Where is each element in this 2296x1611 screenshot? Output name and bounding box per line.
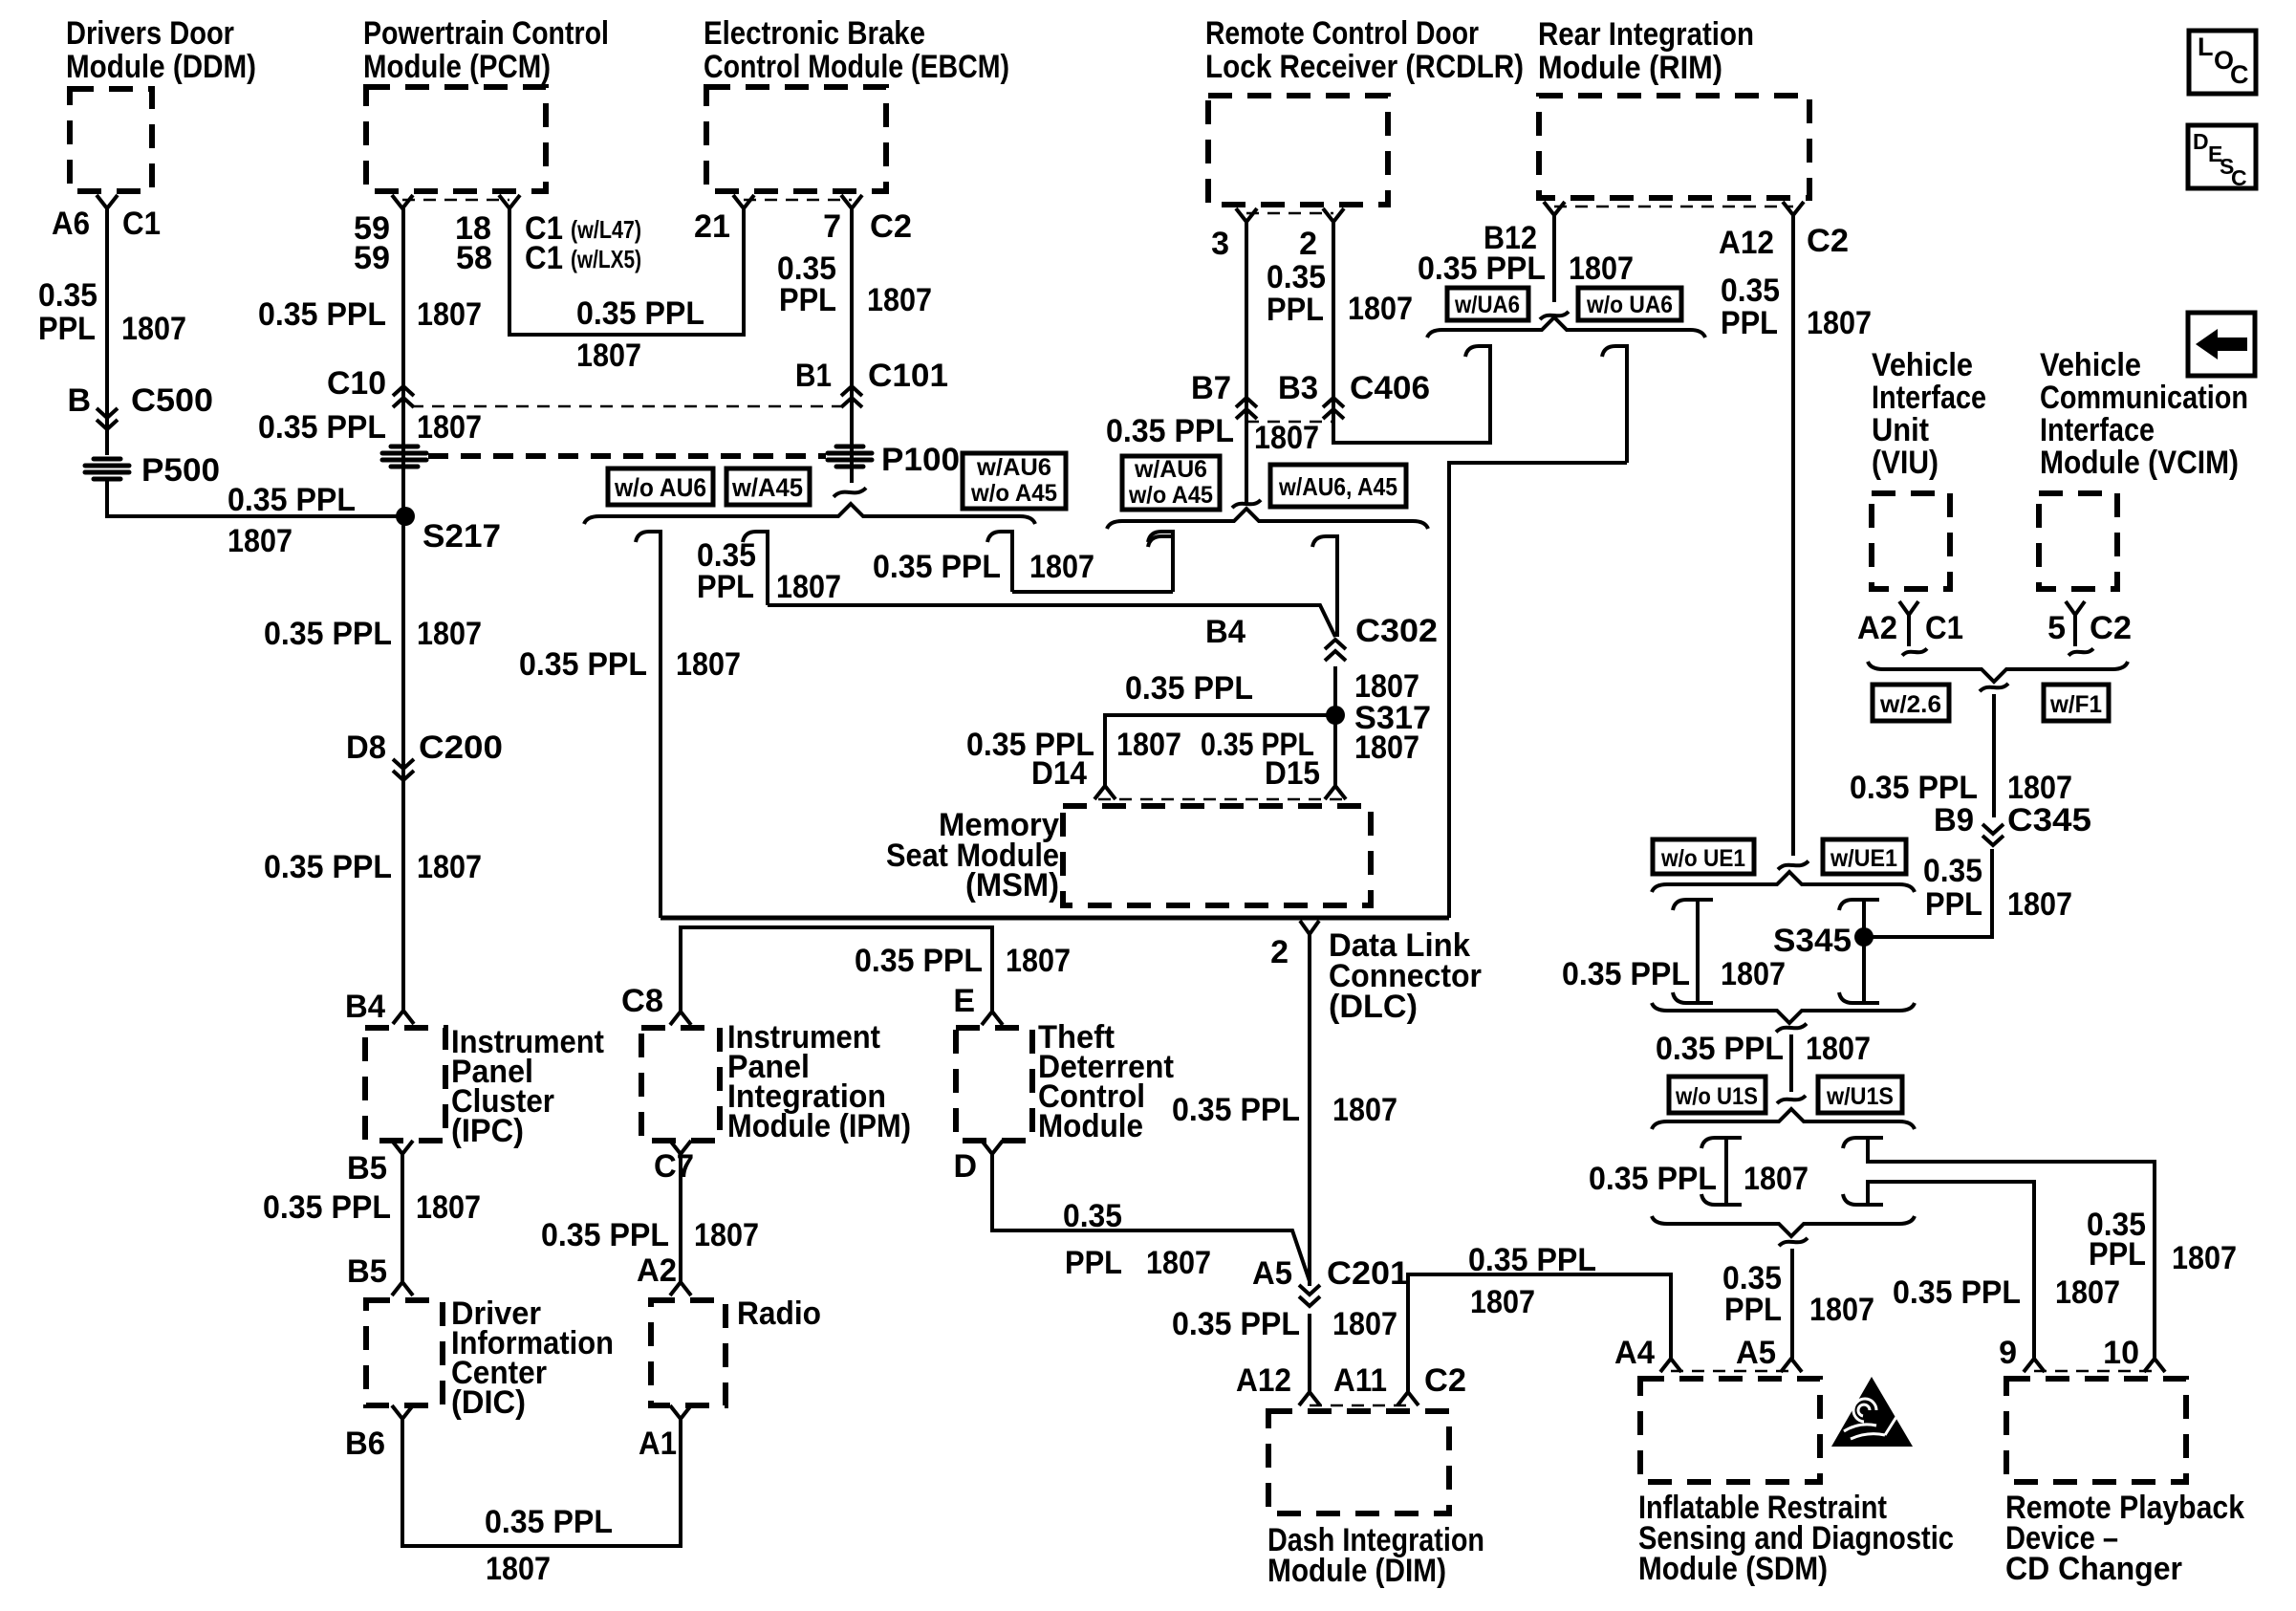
svg-text:w/U1S: w/U1S <box>1826 1083 1894 1110</box>
svg-text:A11: A11 <box>1333 1362 1387 1399</box>
option box w/2.6 <box>1873 685 1949 721</box>
svg-text:A5: A5 <box>1252 1255 1292 1292</box>
pin A11 fork at DIM <box>1397 1392 1419 1405</box>
svg-text:0.35 PPL: 0.35 PPL <box>1656 1031 1784 1067</box>
svg-text:Drivers Door: Drivers Door <box>66 15 234 52</box>
svg-text:0.35: 0.35 <box>1721 272 1780 309</box>
svg-text:B4: B4 <box>345 989 385 1025</box>
svg-text:B4: B4 <box>1205 614 1245 650</box>
option box w/A45 <box>726 468 810 505</box>
connector C406 chevrons B7 <box>1236 398 1257 419</box>
svg-text:A12: A12 <box>1719 225 1774 261</box>
brace for AU6/A45 options (RCDLR side) <box>1107 509 1428 529</box>
svg-text:w/AU6: w/AU6 <box>1134 456 1207 483</box>
svg-text:C345: C345 <box>2007 802 2091 838</box>
pin 3 fork at RCDLR <box>1236 208 1257 222</box>
svg-text:A4: A4 <box>1614 1335 1655 1371</box>
option box w/UE1 <box>1823 839 1906 874</box>
wire break tilde below P100 <box>834 488 866 496</box>
pin B12 fork at RIM <box>1544 202 1565 215</box>
connector C302 chevrons <box>1325 640 1346 661</box>
svg-text:L: L <box>2198 33 2214 61</box>
branch hook w/UA6 <box>1465 346 1490 443</box>
svg-text:B5: B5 <box>347 1150 387 1186</box>
svg-text:w/F1: w/F1 <box>2049 691 2102 718</box>
pin B4 fork at IPC <box>393 1011 414 1024</box>
pin E fork at Theft module <box>982 1012 1003 1025</box>
pin 2 fork at RCDLR <box>1323 208 1344 222</box>
wire C8-E link <box>681 927 992 1012</box>
svg-text:Communication: Communication <box>2040 380 2248 416</box>
svg-text:Remote Control Door: Remote Control Door <box>1205 15 1479 52</box>
svg-text:2: 2 <box>1270 934 1289 970</box>
brace for AU6/A45 options (EBCM side) <box>584 504 1035 524</box>
svg-text:1807: 1807 <box>1348 291 1413 327</box>
option box w/o U1S <box>1669 1077 1765 1113</box>
VIU pin foot <box>1902 648 1927 655</box>
connector C10 chevrons <box>393 386 414 407</box>
connector C200 chevrons <box>393 759 414 780</box>
module DIC box <box>366 1300 443 1405</box>
rail w/UE1 top bar <box>1839 900 1879 910</box>
svg-text:E: E <box>953 983 975 1019</box>
wire Theft D to C201 <box>992 1154 1310 1281</box>
wire break tilde below VIU/VCIM brace <box>1980 684 2008 691</box>
pin A6/C1 fork at DDM <box>97 195 118 208</box>
branch w/o U1S top bar <box>1701 1138 1742 1148</box>
wire RCDLR pin3 down (B7) <box>1245 222 1248 504</box>
bus wire w/o AU6 branch to DLC area <box>661 916 1449 921</box>
connector C201 chevrons <box>1299 1285 1320 1306</box>
option box w/F1 <box>2044 685 2109 721</box>
svg-text:1807: 1807 <box>2172 1240 2237 1276</box>
option box w/AU6, A45 <box>1270 465 1406 507</box>
RCDLR connector dashed edge <box>1246 212 1333 215</box>
wire w/o UA6 branch to bus <box>1449 463 1627 918</box>
option box w/o UA6 <box>1578 288 1681 320</box>
wire S345 to C345 wire <box>1864 849 1992 937</box>
branch w/o U1S wire <box>1724 1138 1728 1205</box>
svg-text:w/o AU6: w/o AU6 <box>614 473 706 502</box>
svg-text:59: 59 <box>354 240 390 276</box>
wire DIC B6 to Radio A1 <box>402 1419 681 1546</box>
wire RIM B12 down <box>1552 215 1556 302</box>
svg-text:Module (IPM): Module (IPM) <box>727 1108 911 1144</box>
svg-text:1807: 1807 <box>1354 729 1419 766</box>
module RCDLR box <box>1208 96 1388 205</box>
module RIM box <box>1539 96 1809 198</box>
svg-text:(DLC): (DLC) <box>1329 989 1418 1025</box>
wire S317 to D15 <box>1333 715 1337 786</box>
branch hook w/o UA6 <box>1602 346 1627 463</box>
branch hook w/AU6 w/o A45 (left) <box>987 532 1012 592</box>
wire break tilde below A5 brace <box>1779 1238 1808 1246</box>
svg-text:10: 10 <box>2103 1335 2139 1371</box>
svg-text:(VIU): (VIU) <box>1872 445 1939 481</box>
module PCM box <box>366 87 546 191</box>
svg-text:P500: P500 <box>141 452 220 489</box>
svg-text:1807: 1807 <box>776 569 841 605</box>
wire S217 to IPC B4 <box>401 516 405 1011</box>
VCIM pin foot <box>2069 648 2093 655</box>
pin B5 fork at IPC bottom <box>392 1141 413 1154</box>
option box w/o UE1 <box>1653 839 1754 874</box>
svg-text:PPL: PPL <box>1721 305 1778 341</box>
svg-text:Interface: Interface <box>2040 412 2155 448</box>
wire DDM A6 to P500 <box>105 208 109 455</box>
svg-text:w/A45: w/A45 <box>731 473 803 502</box>
svg-text:(w/LX5): (w/LX5) <box>571 245 641 273</box>
svg-text:PPL: PPL <box>1724 1292 1782 1328</box>
branch hook w/o AU6 <box>636 532 661 918</box>
svg-text:Rear Integration: Rear Integration <box>1538 16 1754 53</box>
pin 5/C2 fork at VCIM <box>2066 601 2085 615</box>
svg-text:PPL: PPL <box>38 311 96 347</box>
svg-text:1807: 1807 <box>227 523 292 559</box>
svg-text:1807: 1807 <box>1332 1306 1397 1342</box>
svg-text:B3: B3 <box>1278 370 1318 406</box>
svg-text:Module (RIM): Module (RIM) <box>1538 50 1722 86</box>
svg-text:Vehicle: Vehicle <box>1872 347 1973 383</box>
svg-text:C1: C1 <box>122 206 161 242</box>
option box w/AU6 w/o A45 (right) <box>1122 456 1220 510</box>
svg-text:C2: C2 <box>2090 610 2132 646</box>
svg-text:1807: 1807 <box>1569 250 1634 287</box>
svg-text:1807: 1807 <box>576 337 641 374</box>
svg-text:1807: 1807 <box>1806 1031 1871 1067</box>
svg-text:C1: C1 <box>1925 610 1963 646</box>
module Radio box <box>651 1300 726 1405</box>
pin 7 fork at EBCM <box>841 195 862 208</box>
svg-text:w/2.6: w/2.6 <box>1879 691 1941 718</box>
svg-text:0.35 PPL: 0.35 PPL <box>519 646 647 683</box>
C406 dashed line <box>1246 421 1333 424</box>
brace gathering VIU/VCIM <box>1868 662 2128 682</box>
svg-text:1807: 1807 <box>2055 1274 2120 1311</box>
svg-text:PPL: PPL <box>697 569 754 605</box>
svg-text:PPL: PPL <box>1065 1245 1122 1281</box>
svg-text:58: 58 <box>456 240 492 276</box>
svg-text:0.35 PPL: 0.35 PPL <box>873 549 1001 585</box>
svg-text:Module (VCIM): Module (VCIM) <box>2040 445 2239 481</box>
branch w/U1S top bar <box>1843 1138 1883 1148</box>
svg-text:1807: 1807 <box>867 282 932 318</box>
svg-text:1807: 1807 <box>1116 727 1181 763</box>
SDM connector dashed edge <box>1671 1370 1791 1373</box>
svg-text:1807: 1807 <box>2007 770 2072 806</box>
svg-text:B6: B6 <box>345 1426 385 1462</box>
svg-text:1807: 1807 <box>417 849 482 885</box>
svg-text:Electronic Brake: Electronic Brake <box>704 15 925 52</box>
svg-text:Lock Receiver (RCDLR): Lock Receiver (RCDLR) <box>1205 49 1524 85</box>
PCM connector dashed edge <box>402 199 509 202</box>
svg-text:C200: C200 <box>419 729 503 766</box>
svg-text:C10: C10 <box>327 365 386 402</box>
svg-text:0.35 PPL: 0.35 PPL <box>258 409 386 446</box>
svg-text:D15: D15 <box>1265 755 1320 792</box>
svg-text:Module (PCM): Module (PCM) <box>363 49 551 85</box>
svg-text:0.35 PPL: 0.35 PPL <box>1418 250 1546 287</box>
EBCM connector dashed edge <box>744 199 852 202</box>
pin A12 fork at RIM <box>1783 202 1804 215</box>
module EBCM box <box>706 87 886 191</box>
svg-text:0.35 PPL: 0.35 PPL <box>576 295 704 332</box>
wire brace B right branch merge <box>1335 592 1339 637</box>
branch pin9 bottom bar <box>1843 1194 1883 1205</box>
rail w/o UE1 wire <box>1696 900 1700 1003</box>
CD connector dashed edge <box>2034 1370 2155 1373</box>
module DDM box <box>70 89 152 191</box>
svg-text:Module (DDM): Module (DDM) <box>66 49 256 85</box>
svg-text:Powertrain Control: Powertrain Control <box>363 15 609 52</box>
pin 2 fork at DLC <box>1300 921 1319 934</box>
svg-text:PPL: PPL <box>2089 1236 2146 1273</box>
svg-text:w/UE1: w/UE1 <box>1830 845 1897 872</box>
svg-text:0.35 PPL: 0.35 PPL <box>264 849 392 885</box>
svg-text:1807: 1807 <box>417 409 482 446</box>
svg-text:1807: 1807 <box>121 311 186 347</box>
wire A5 brace to SDM A5 <box>1790 1249 1794 1359</box>
svg-text:Vehicle: Vehicle <box>2040 347 2141 383</box>
back arrow box <box>2188 313 2255 376</box>
svg-text:Module (SDM): Module (SDM) <box>1638 1551 1828 1587</box>
wire S317 to D14 <box>1105 715 1335 786</box>
wire UE1 net down to U1S group <box>1789 1034 1793 1092</box>
svg-text:1807: 1807 <box>694 1217 759 1253</box>
branch hook brace B right <box>1312 536 1337 637</box>
svg-text:B: B <box>67 382 91 419</box>
svg-text:1807: 1807 <box>417 616 482 652</box>
wire break tilde above UE1 brace <box>1778 861 1809 870</box>
module IPC box <box>365 1028 445 1141</box>
svg-text:PPL: PPL <box>1267 292 1324 328</box>
svg-text:9: 9 <box>1999 1335 2017 1371</box>
module VIU box <box>1872 493 1950 589</box>
rail w/UE1 wire <box>1862 900 1866 1003</box>
svg-text:Unit: Unit <box>1872 412 1929 448</box>
pin A12 fork at DIM <box>1299 1392 1320 1405</box>
svg-text:(DIC): (DIC) <box>451 1384 526 1421</box>
pin A5 fork at SDM <box>1781 1359 1802 1372</box>
svg-text:C1: C1 <box>525 240 563 276</box>
splice S317 <box>1326 706 1345 725</box>
wire w/A45 branch to C302 <box>768 605 1335 637</box>
wire break tilde at B12 brace <box>1540 312 1569 319</box>
svg-text:1807: 1807 <box>1721 956 1786 992</box>
pin C7 fork at IPM bottom <box>670 1141 691 1154</box>
option box w/AU6 w/o A45 (left) <box>963 453 1066 509</box>
pin A1 fork at Radio bottom <box>670 1405 691 1419</box>
svg-text:2: 2 <box>1299 226 1317 262</box>
svg-text:0.35 PPL: 0.35 PPL <box>1562 956 1690 992</box>
RIM connector dashed edge <box>1554 206 1793 208</box>
wire EBCM pin7 down to P100 <box>850 208 854 483</box>
svg-text:w/o UE1: w/o UE1 <box>1660 845 1745 872</box>
wire P500 to S217 <box>107 478 405 516</box>
svg-text:0.35: 0.35 <box>38 277 97 314</box>
svg-text:1807: 1807 <box>416 1189 481 1226</box>
svg-text:B7: B7 <box>1191 370 1231 406</box>
svg-text:Radio: Radio <box>737 1295 821 1332</box>
LOC legend box <box>2189 31 2256 94</box>
module Theft Deterrent box <box>956 1028 1032 1141</box>
svg-text:CD Changer: CD Changer <box>2005 1551 2182 1587</box>
DESC legend box <box>2188 125 2256 188</box>
pin 10 fork at CD changer <box>2144 1359 2165 1372</box>
svg-text:C500: C500 <box>131 382 213 419</box>
splice S345 <box>1854 927 1874 947</box>
svg-text:3: 3 <box>1211 226 1229 262</box>
wire C201 to DIM A12 <box>1308 1314 1311 1392</box>
svg-text:B1: B1 <box>795 358 832 394</box>
svg-text:w/o U1S: w/o U1S <box>1675 1083 1758 1110</box>
svg-text:C2: C2 <box>1807 223 1849 259</box>
svg-text:0.35 PPL: 0.35 PPL <box>1172 1092 1300 1128</box>
svg-text:w/o UA6: w/o UA6 <box>1586 292 1673 318</box>
module IPM box <box>641 1028 720 1141</box>
P100 bulkhead dashed line <box>428 453 826 459</box>
svg-text:PPL: PPL <box>1925 886 1982 923</box>
svg-text:Module (DIM): Module (DIM) <box>1267 1553 1446 1589</box>
svg-text:0.35 PPL: 0.35 PPL <box>1850 770 1978 806</box>
svg-text:A2: A2 <box>1857 610 1897 646</box>
svg-text:1807: 1807 <box>1006 943 1071 979</box>
svg-text:0.35 PPL: 0.35 PPL <box>1106 413 1234 449</box>
svg-text:0.35 PPL: 0.35 PPL <box>541 1217 669 1253</box>
svg-text:C201: C201 <box>1327 1255 1409 1292</box>
pin B5 fork at DIC top <box>392 1282 413 1295</box>
svg-text:0.35 PPL: 0.35 PPL <box>1172 1306 1300 1342</box>
svg-text:A2: A2 <box>637 1252 677 1289</box>
airbag warning triangle <box>1831 1377 1913 1447</box>
module DIM box <box>1268 1411 1449 1513</box>
svg-text:D14: D14 <box>1031 755 1087 792</box>
wire AU6 bypass link <box>1012 590 1173 594</box>
wire RIM A12 down to UE1 group <box>1791 215 1795 856</box>
rail w/o UE1 bottom bar <box>1673 992 1713 1003</box>
brace closing UE1 options <box>1652 1003 1915 1023</box>
wire w/U1S to CD pin10 <box>1868 1138 2155 1359</box>
DIM connector dashed edge <box>1310 1404 1408 1407</box>
rail w/o UE1 top bar <box>1673 900 1713 910</box>
svg-text:D8: D8 <box>346 729 386 766</box>
pin A4 fork at SDM <box>1660 1359 1681 1372</box>
wire PCM pin59 down through S217 <box>401 208 405 516</box>
wire break tilde below UE1 closing brace <box>1776 1024 1807 1033</box>
pin B6 fork at DIC bottom <box>392 1405 413 1419</box>
connector C406 chevrons B3 <box>1323 398 1344 419</box>
svg-text:0.35 PPL: 0.35 PPL <box>263 1189 391 1226</box>
branch w/o U1S bottom bar <box>1701 1194 1742 1205</box>
svg-text:C406: C406 <box>1350 370 1430 406</box>
svg-text:C2: C2 <box>870 208 912 245</box>
svg-text:C: C <box>2230 60 2249 89</box>
svg-text:1807: 1807 <box>2007 886 2072 923</box>
svg-text:w/AU6: w/AU6 <box>976 454 1051 481</box>
svg-text:0.35: 0.35 <box>1063 1198 1122 1234</box>
module VCIM box <box>2039 493 2117 589</box>
branch hook brace B left <box>1148 536 1173 592</box>
brace for UA6 options <box>1427 317 1705 337</box>
module SDM box <box>1640 1379 1820 1482</box>
pin 59 fork at PCM <box>392 195 413 208</box>
brace for UE1 options <box>1652 872 1915 892</box>
wire DIM A11 to SDM A4 <box>1408 1274 1671 1392</box>
svg-text:1807: 1807 <box>1029 549 1094 585</box>
pass-through grommet on PCM wire <box>382 446 426 467</box>
svg-text:D: D <box>2193 129 2209 154</box>
pin A2 fork at Radio top <box>670 1282 691 1295</box>
svg-text:0.35 PPL: 0.35 PPL <box>258 296 386 333</box>
svg-text:D: D <box>953 1148 977 1185</box>
svg-text:w/o A45: w/o A45 <box>970 480 1057 507</box>
wire IPM C7 to Radio A2 <box>679 1154 682 1282</box>
svg-text:0.35 PPL: 0.35 PPL <box>855 943 983 979</box>
svg-text:1807: 1807 <box>1470 1284 1535 1320</box>
svg-text:A5: A5 <box>1736 1335 1776 1371</box>
svg-text:0.35: 0.35 <box>1923 853 1982 889</box>
wire DLC pin2 down to C201 <box>1308 934 1311 1286</box>
pin D15 fork at MSM <box>1325 786 1346 799</box>
pin D14 fork at MSM <box>1094 786 1116 799</box>
option box w/UA6 <box>1447 288 1528 320</box>
svg-text:21: 21 <box>694 208 730 245</box>
svg-text:A12: A12 <box>1236 1362 1291 1399</box>
svg-text:C: C <box>2231 165 2247 190</box>
svg-text:(w/L47): (w/L47) <box>571 215 641 244</box>
wire CD pin9 link <box>1868 1182 2034 1359</box>
svg-text:5: 5 <box>2047 610 2066 646</box>
svg-text:w/AU6, A45: w/AU6, A45 <box>1278 472 1397 501</box>
brace gathering to SDM A5 <box>1652 1216 1915 1236</box>
svg-text:0.35 PPL: 0.35 PPL <box>264 616 392 652</box>
module CD changer box <box>2006 1379 2186 1482</box>
module MSM box <box>1063 806 1371 905</box>
wire break tilde above brace B <box>1232 500 1261 508</box>
svg-text:Module: Module <box>1038 1108 1143 1144</box>
option box w/o AU6 <box>608 468 713 505</box>
wire PCM C1 to EBCM pin21 <box>509 208 744 335</box>
svg-text:1807: 1807 <box>1146 1245 1211 1281</box>
svg-text:C8: C8 <box>621 983 663 1019</box>
pin 21 fork at EBCM <box>733 195 754 208</box>
option box w/U1S <box>1818 1077 1902 1113</box>
svg-text:w/o A45: w/o A45 <box>1128 482 1213 509</box>
svg-text:1807: 1807 <box>1807 305 1872 341</box>
pass-through P100 <box>828 446 872 467</box>
wire IPC B5 to DIC B5 <box>401 1154 404 1282</box>
svg-text:1807: 1807 <box>417 296 482 333</box>
pin D fork at Theft bottom <box>982 1141 1003 1154</box>
svg-text:P100: P100 <box>881 442 960 478</box>
svg-text:C302: C302 <box>1355 613 1438 649</box>
wire C302 to S317 <box>1333 666 1337 715</box>
pin C8 fork at IPM <box>670 1012 691 1025</box>
svg-text:1807: 1807 <box>486 1551 551 1587</box>
svg-text:C7: C7 <box>654 1148 694 1185</box>
connector C500 chevrons <box>97 408 118 429</box>
svg-text:(IPC): (IPC) <box>451 1113 524 1149</box>
svg-text:1807: 1807 <box>676 646 741 683</box>
wire RCDLR pin2 down (B3) <box>1333 222 1490 443</box>
svg-text:0.35 PPL: 0.35 PPL <box>1589 1161 1717 1197</box>
svg-text:A6: A6 <box>52 206 90 242</box>
svg-text:PPL: PPL <box>779 282 836 318</box>
svg-text:0.35 PPL: 0.35 PPL <box>485 1504 613 1540</box>
C10/C101 dashed line <box>411 405 841 408</box>
svg-text:0.35 PPL: 0.35 PPL <box>1468 1242 1596 1278</box>
connector C101 chevrons <box>841 386 862 407</box>
